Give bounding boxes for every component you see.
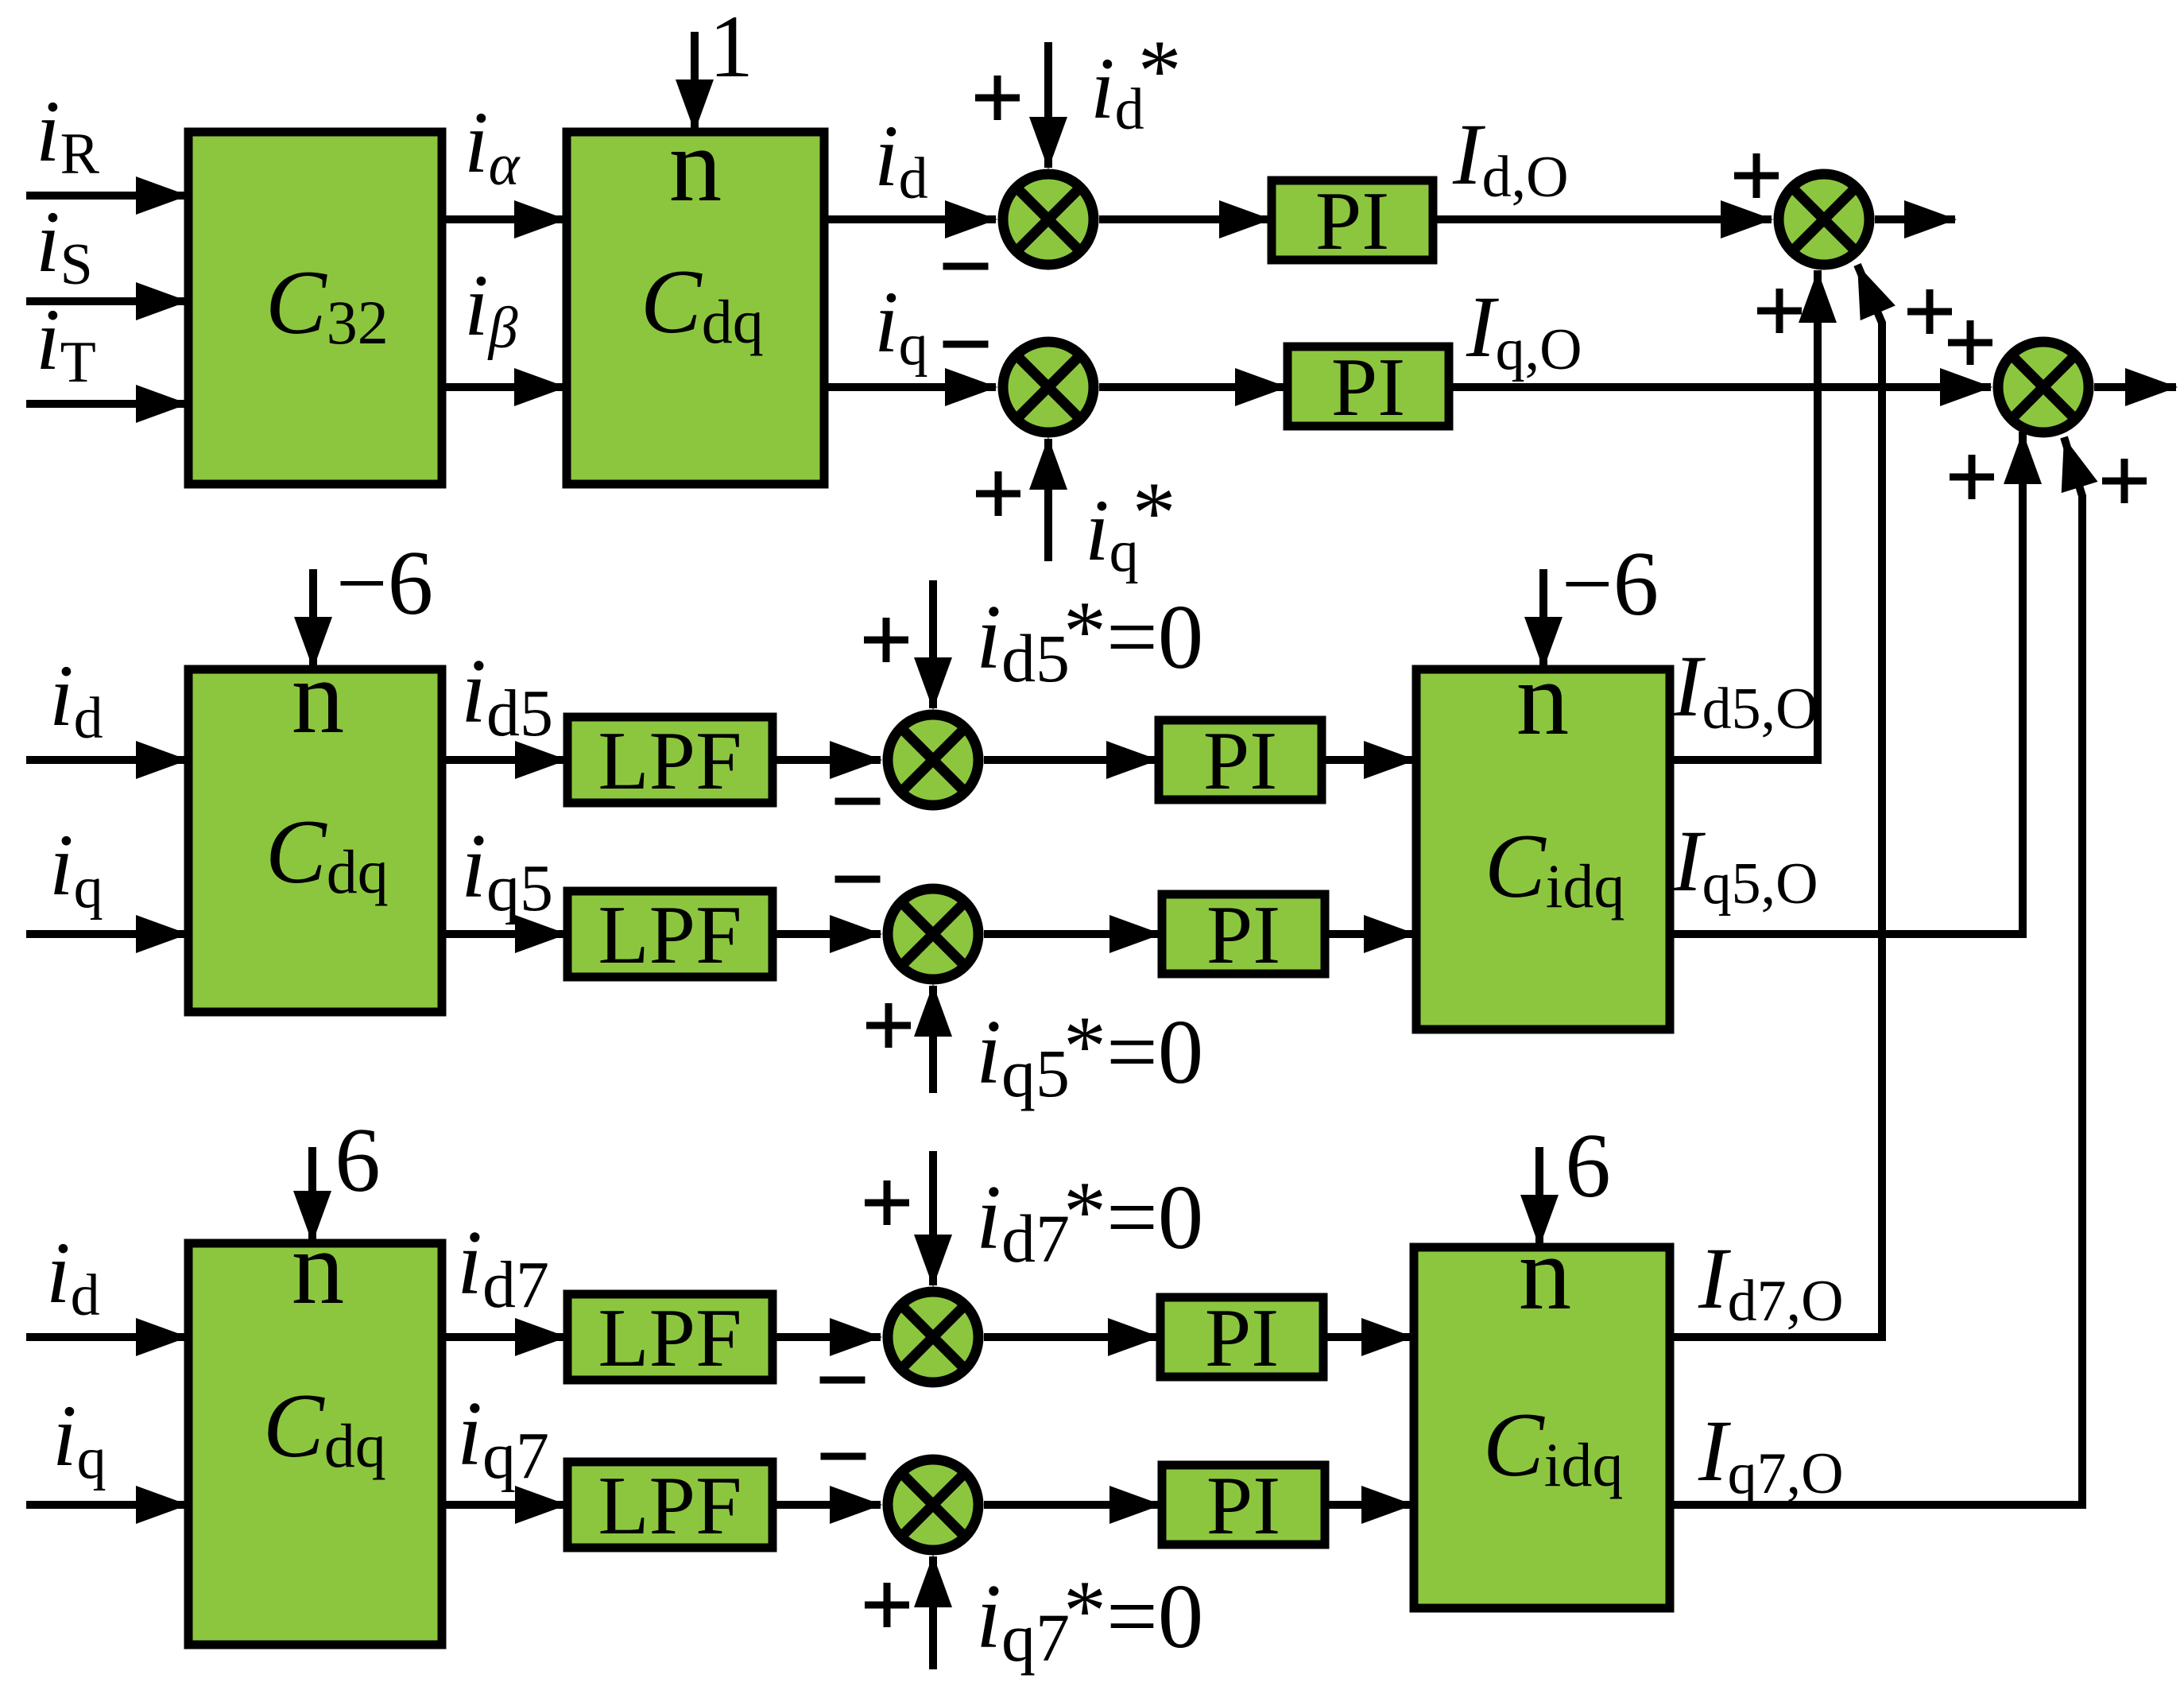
svg-text:LPF: LPF [598,1291,742,1384]
svg-text:6: 6 [1565,1115,1611,1216]
svg-text:PI: PI [1206,888,1280,981]
svg-text:n: n [1516,639,1570,757]
svg-text:n: n [292,638,345,755]
svg-text:LPF: LPF [598,888,742,981]
svg-text:PI: PI [1205,1291,1279,1384]
svg-text:1: 1 [709,0,753,96]
svg-text:LPF: LPF [598,1459,742,1552]
svg-text:6: 6 [335,1110,381,1211]
svg-text:PI: PI [1206,1459,1280,1552]
svg-text:−6: −6 [1562,533,1659,634]
svg-text:n: n [292,1208,345,1326]
svg-text:n: n [1519,1214,1572,1332]
svg-text:LPF: LPF [598,714,742,807]
svg-text:PI: PI [1331,340,1405,433]
svg-text:PI: PI [1315,174,1389,267]
svg-text:−6: −6 [336,533,433,634]
svg-text:n: n [669,106,722,223]
svg-text:PI: PI [1203,714,1277,807]
